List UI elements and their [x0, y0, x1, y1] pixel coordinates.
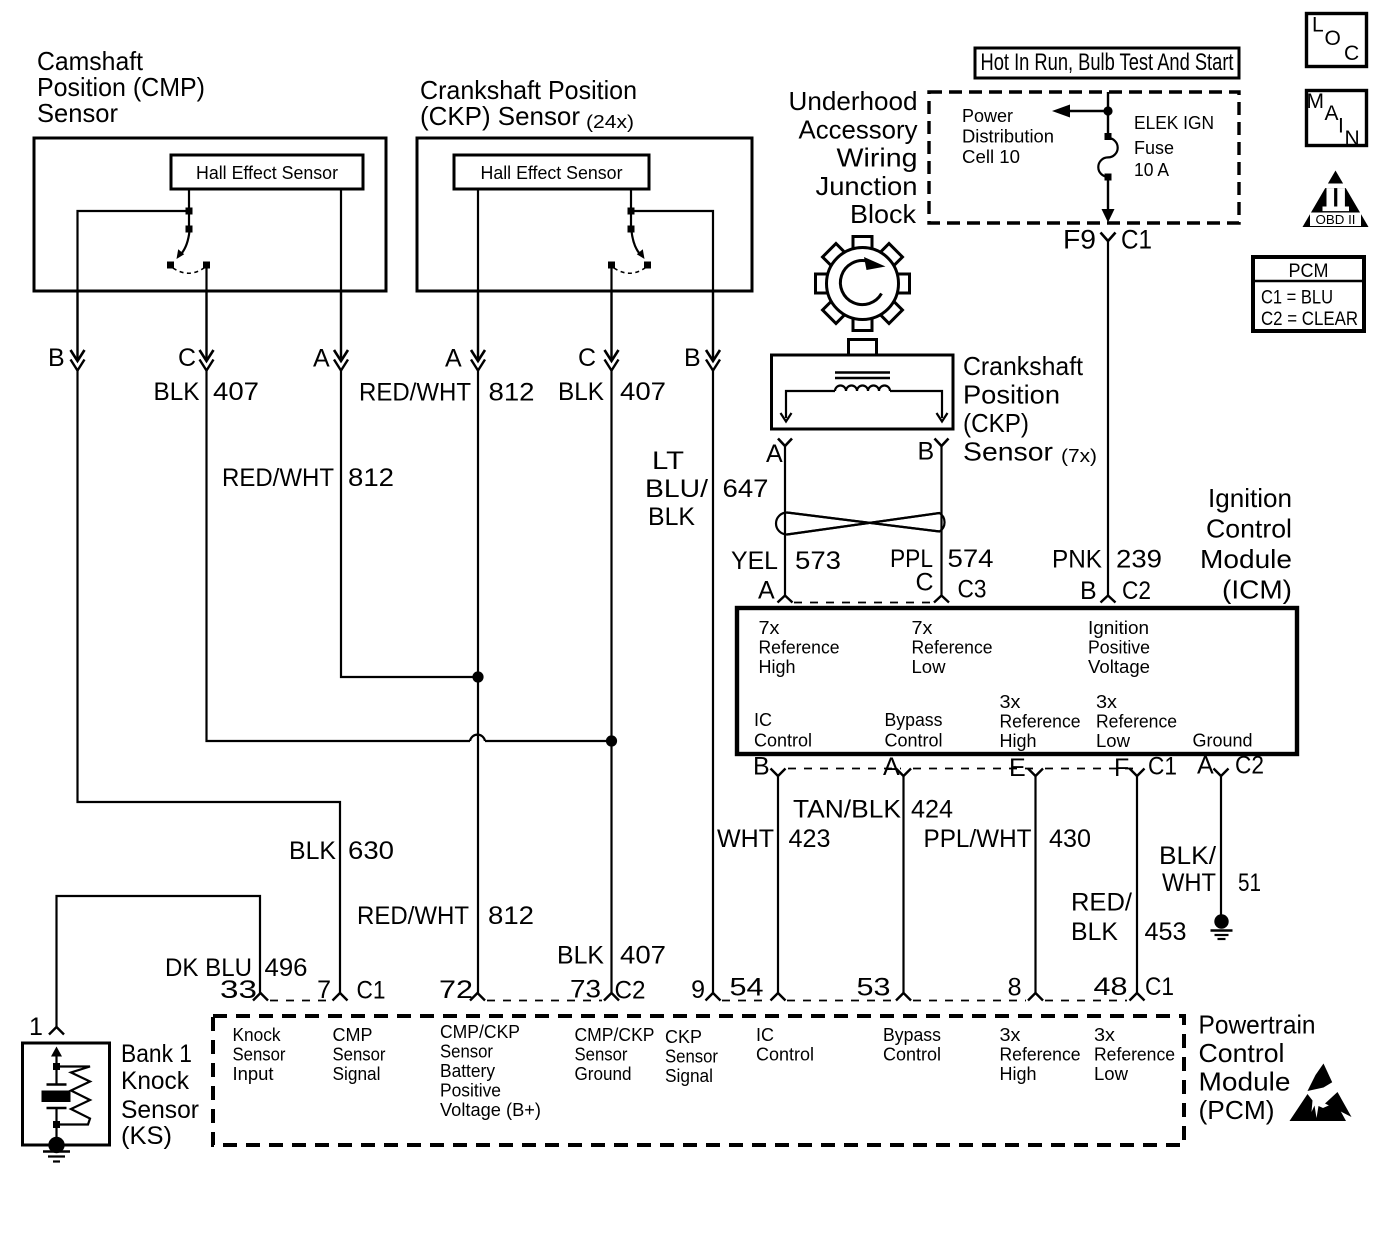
wire CKP hall to switch [630, 189, 632, 229]
CMP sensor title [37, 46, 205, 128]
svg-text:C1: C1 [1145, 973, 1174, 1001]
OBD II symbol [1303, 171, 1369, 228]
svg-text:I: I [1338, 115, 1344, 138]
wire CMP hall to pin A [340, 189, 342, 291]
svg-text:BLK: BLK [557, 942, 604, 970]
svg-text:C3: C3 [958, 576, 987, 604]
svg-text:High: High [1000, 1064, 1037, 1084]
svg-text:B: B [918, 438, 935, 466]
svg-text:PPL/WHT: PPL/WHT [924, 825, 1032, 853]
svg-text:Module: Module [1199, 1067, 1291, 1097]
svg-text:O: O [1325, 27, 1341, 50]
wire CKP B run [712, 371, 714, 994]
wire ICM F to PCM 48 [1136, 776, 1138, 993]
PCM label bypass control [883, 1025, 941, 1065]
svg-text:C: C [1344, 42, 1359, 65]
svg-text:48: 48 [1094, 973, 1128, 1001]
svg-text:Wiring: Wiring [837, 143, 918, 173]
PCM label CKP sensor signal [665, 1027, 718, 1086]
ICM box [737, 608, 1297, 754]
svg-text:BLU/: BLU/ [645, 475, 708, 503]
svg-text:Positive: Positive [1088, 638, 1150, 658]
svg-text:7x: 7x [759, 618, 780, 638]
svg-text:Sensor: Sensor [440, 1042, 493, 1062]
ICM top connector pin B C2 [1080, 577, 1151, 605]
PCM label 3x reference low [1094, 1025, 1175, 1084]
svg-text:C2: C2 [615, 977, 646, 1005]
svg-text:High: High [759, 657, 796, 677]
connector F9 C1 [1063, 225, 1152, 255]
svg-text:Ground: Ground [575, 1064, 632, 1084]
svg-text:DK BLU: DK BLU [165, 954, 252, 982]
svg-text:BLK: BLK [1071, 918, 1118, 946]
underhood junction block title [789, 86, 918, 229]
svg-text:C1 = BLU: C1 = BLU [1261, 288, 1333, 309]
svg-text:L: L [1312, 14, 1324, 37]
pin B of CKP [684, 291, 720, 372]
svg-text:C1: C1 [357, 977, 386, 1005]
label TAN/BLK 424 [793, 796, 953, 824]
svg-text:Module: Module [1200, 544, 1292, 574]
PCM label IC control [756, 1025, 814, 1065]
svg-text:LT: LT [652, 447, 684, 475]
svg-text:630: 630 [348, 837, 394, 865]
svg-text:A: A [1197, 752, 1214, 780]
PCM top connector pin 8 [1008, 974, 1043, 1002]
svg-text:C1: C1 [1148, 753, 1177, 781]
ICM top connector dashed line [794, 602, 932, 604]
PCM label 3x reference high [1000, 1025, 1081, 1084]
junction C [606, 735, 617, 746]
svg-text:3x: 3x [1000, 692, 1021, 712]
PCM dashed box [213, 1016, 1184, 1145]
svg-text:B: B [48, 344, 65, 372]
svg-text:C2 = CLEAR: C2 = CLEAR [1261, 309, 1358, 330]
svg-text:BLK: BLK [648, 503, 695, 531]
CKP switch [608, 208, 651, 274]
svg-text:RED/WHT: RED/WHT [357, 902, 469, 930]
svg-text:Reference: Reference [1000, 712, 1081, 732]
svg-text:8: 8 [1008, 974, 1022, 1002]
svg-text:Reference: Reference [1096, 712, 1177, 732]
ICM bottom connector pin E [1009, 754, 1043, 782]
svg-text:Ground: Ground [1193, 731, 1253, 751]
svg-text:C1: C1 [1121, 225, 1152, 255]
CMP sensor box [34, 138, 386, 291]
knock sensor ground [43, 1137, 70, 1162]
svg-text:(CKP) Sensor: (CKP) Sensor [420, 101, 580, 131]
label LT BLU/BLK 647 [645, 447, 769, 531]
svg-text:Reference: Reference [1094, 1045, 1175, 1065]
knock sensor piezo element [42, 1047, 71, 1146]
svg-text:647: 647 [723, 475, 769, 503]
wire CMP hall to switch [188, 189, 190, 229]
svg-text:9: 9 [691, 976, 705, 1004]
svg-text:C: C [178, 344, 196, 372]
label RED/BLK 453 [1071, 889, 1187, 947]
svg-text:Bypass: Bypass [885, 710, 943, 730]
svg-text:CKP: CKP [665, 1027, 702, 1047]
ICM bottom connector dashed line [788, 768, 1135, 770]
svg-text:Hall Effect Sensor: Hall Effect Sensor [196, 163, 338, 183]
fuse F9 [1098, 133, 1117, 181]
label RED/WHT 812 lower [357, 902, 534, 930]
PCM top connector pin 9 [691, 976, 720, 1004]
wire into fuse [1107, 92, 1109, 136]
svg-text:53: 53 [857, 974, 891, 1002]
svg-text:A: A [766, 440, 783, 468]
label PPL/WHT 430 [924, 825, 1092, 853]
svg-text:Signal: Signal [333, 1064, 381, 1084]
feed arrow to power distribution [1052, 105, 1113, 118]
svg-text:(CKP): (CKP) [963, 408, 1029, 438]
svg-text:453: 453 [1145, 918, 1187, 946]
knock sensor title [121, 1040, 199, 1150]
svg-text:Control: Control [1206, 514, 1292, 544]
svg-text:Low: Low [912, 657, 947, 677]
svg-text:RED/WHT: RED/WHT [359, 379, 471, 407]
wire CKP C run [610, 371, 612, 994]
svg-text:3x: 3x [1094, 1025, 1115, 1045]
hot in run label box [975, 48, 1239, 78]
svg-text:Reference: Reference [1000, 1045, 1081, 1065]
PCM top connector pin 48 C1 [1094, 973, 1175, 1001]
ICM top connector pin A [758, 577, 793, 605]
svg-text:BLK/: BLK/ [1159, 842, 1216, 870]
svg-text:Control: Control [756, 1045, 814, 1065]
svg-text:Control: Control [754, 731, 812, 751]
svg-text:Ignition: Ignition [1088, 618, 1149, 638]
CMP switch [167, 208, 210, 274]
svg-text:CMP/CKP: CMP/CKP [575, 1025, 655, 1045]
wire CMP C run to junction with hop [207, 371, 609, 742]
svg-text:Sensor: Sensor [233, 1045, 286, 1065]
PCM top connector pin 7 C1 [317, 976, 385, 1005]
label RED/WHT 812 on CMP A [222, 464, 394, 492]
ICM label 3x reference high [1000, 692, 1081, 751]
svg-text:54: 54 [730, 974, 764, 1002]
svg-text:812: 812 [348, 464, 394, 492]
svg-text:TAN/BLK: TAN/BLK [793, 796, 901, 824]
svg-text:PCM: PCM [1289, 261, 1329, 282]
wire ICM A C2 to ground [1220, 776, 1222, 915]
MAIN symbol [1307, 90, 1367, 150]
pin A of CKP 7x [766, 439, 792, 469]
wire CKP switch to pin C [610, 268, 612, 291]
svg-text:B: B [684, 344, 701, 372]
label PPL 574 [890, 545, 994, 573]
svg-text:Hot In Run, Bulb Test And Star: Hot In Run, Bulb Test And Start [981, 49, 1234, 76]
svg-text:Powertrain: Powertrain [1199, 1010, 1316, 1040]
svg-text:424: 424 [911, 796, 953, 824]
wire CMP switch common to B [78, 211, 190, 291]
wire CMP B run [78, 371, 341, 994]
svg-text:Bypass: Bypass [883, 1025, 941, 1045]
ICM label ignition positive voltage [1088, 618, 1150, 677]
svg-text:Block: Block [850, 199, 917, 229]
wire CKP7x B to ICM [940, 446, 942, 596]
svg-text:RED/: RED/ [1071, 889, 1132, 917]
CKP sensor box [417, 138, 752, 291]
label BLK 407 lower [557, 942, 666, 970]
svg-text:ELEK IGN: ELEK IGN [1134, 113, 1214, 133]
CKP 7x pickup coil [781, 373, 948, 422]
svg-text:N: N [1345, 127, 1360, 150]
svg-text:Distribution: Distribution [962, 127, 1054, 147]
ground symbol G103 [1211, 914, 1233, 939]
svg-text:BLK: BLK [558, 378, 604, 406]
svg-text:(PCM): (PCM) [1199, 1095, 1275, 1125]
svg-text:Reference: Reference [759, 638, 840, 658]
label BLK/WHT 51 [1159, 842, 1261, 897]
svg-text:Sensor: Sensor [121, 1096, 199, 1124]
pin C of CMP [178, 291, 214, 372]
svg-text:Position: Position [963, 380, 1060, 410]
CKP 7x sensor box [772, 340, 954, 430]
svg-text:Knock: Knock [233, 1025, 282, 1045]
PCM top connector pin 54 [730, 974, 786, 1002]
svg-text:M: M [1307, 90, 1325, 113]
svg-text:1: 1 [29, 1013, 43, 1041]
PCM title [1199, 1010, 1316, 1126]
reluctor wheel symbol [816, 237, 910, 331]
svg-text:Control: Control [1199, 1038, 1285, 1068]
svg-text:BLK: BLK [154, 378, 200, 406]
wire ICM E to PCM 8 [1034, 776, 1036, 993]
svg-text:Battery: Battery [440, 1061, 495, 1081]
PCM top connector pin 53 [857, 974, 912, 1002]
label WHT 423 [717, 825, 831, 853]
label YEL 573 [731, 547, 841, 575]
ICM bottom connector pin F C1 [1114, 753, 1177, 783]
pin C of CKP [578, 291, 619, 372]
svg-text:Junction: Junction [816, 171, 918, 201]
CKP 7x sensor title [963, 351, 1097, 467]
svg-text:423: 423 [789, 825, 831, 853]
svg-text:Hall Effect Sensor: Hall Effect Sensor [481, 163, 623, 183]
PCM top connector pin 73 C2 [570, 976, 646, 1005]
pin A of CMP [313, 291, 348, 373]
svg-text:IC: IC [754, 710, 772, 730]
svg-text:73: 73 [570, 976, 601, 1004]
svg-text:3x: 3x [1000, 1025, 1021, 1045]
ICM label bypass control [885, 710, 943, 751]
svg-text:WHT: WHT [717, 825, 774, 853]
svg-text:(ICM): (ICM) [1222, 575, 1292, 605]
CMP hall effect sensor box [171, 155, 363, 189]
wire CKP A run [477, 371, 479, 994]
svg-text:Signal: Signal [665, 1066, 713, 1086]
ICM label 7x reference high [759, 618, 840, 677]
svg-text:Input: Input [233, 1064, 274, 1084]
svg-text:Accessory: Accessory [799, 115, 918, 145]
svg-text:IC: IC [756, 1025, 774, 1045]
ICM label IC control [754, 710, 812, 751]
svg-text:Low: Low [1094, 1064, 1129, 1084]
wire CKP7x A to ICM [784, 446, 786, 596]
twisted pair symbol [776, 513, 945, 535]
svg-text:51: 51 [1238, 869, 1261, 897]
svg-text:B: B [1080, 577, 1097, 605]
svg-text:Sensor: Sensor [37, 98, 118, 128]
svg-text:High: High [1000, 731, 1037, 751]
PCM connector legend [1253, 257, 1364, 331]
wire CMP A run to junction [341, 371, 473, 678]
svg-text:B: B [753, 753, 770, 781]
svg-text:3x: 3x [1096, 692, 1117, 712]
CKP hall effect sensor box [454, 155, 649, 189]
svg-text:Sensor: Sensor [963, 437, 1053, 467]
svg-text:496: 496 [265, 954, 308, 982]
svg-text:OBD II: OBD II [1316, 212, 1356, 227]
wire ICM B to PCM 54 [777, 776, 779, 993]
svg-text:(7x): (7x) [1061, 446, 1097, 466]
svg-text:Sensor: Sensor [575, 1045, 628, 1065]
svg-text:Low: Low [1096, 731, 1131, 751]
PCM top connector pin 33 [220, 976, 268, 1004]
svg-text:7x: 7x [912, 618, 933, 638]
ICM title [1200, 483, 1292, 605]
svg-text:Voltage: Voltage [1088, 657, 1150, 677]
svg-text:CMP/CKP: CMP/CKP [440, 1022, 520, 1042]
ESD sensitive symbol [1290, 1064, 1352, 1122]
svg-text:RED/WHT: RED/WHT [222, 464, 334, 492]
svg-text:YEL: YEL [731, 547, 778, 575]
svg-text:72: 72 [439, 976, 473, 1004]
LOC symbol [1307, 14, 1367, 67]
junction block dashed box [929, 92, 1239, 223]
svg-text:407: 407 [620, 942, 666, 970]
svg-text:Underhood: Underhood [789, 86, 918, 116]
svg-text:812: 812 [488, 902, 534, 930]
svg-text:CMP: CMP [333, 1025, 373, 1045]
svg-text:430: 430 [1049, 825, 1091, 853]
svg-text:A: A [1325, 102, 1339, 125]
svg-text:A: A [758, 577, 775, 605]
svg-text:407: 407 [213, 378, 259, 406]
CKP sensor title [420, 75, 637, 132]
svg-text:Power: Power [962, 106, 1013, 126]
PCM label knock sensor input [233, 1025, 286, 1084]
svg-text:C2: C2 [1235, 752, 1264, 780]
wire CKP switch common to B [631, 211, 713, 291]
svg-text:A: A [313, 345, 330, 373]
svg-text:BLK: BLK [289, 837, 336, 865]
ELEK IGN fuse label [1134, 113, 1214, 180]
knock sensor resistor [60, 1067, 90, 1125]
PCM label CMP CKP battery positive voltage [440, 1022, 541, 1120]
PCM label CMP sensor signal [333, 1025, 386, 1084]
svg-text:812: 812 [489, 379, 535, 407]
svg-text:Ignition: Ignition [1208, 483, 1292, 513]
svg-text:Control: Control [885, 731, 943, 751]
svg-text:Reference: Reference [912, 638, 993, 658]
ICM label 3x reference low [1096, 692, 1177, 751]
svg-text:(KS): (KS) [121, 1122, 172, 1150]
ICM label 7x reference low [912, 618, 993, 677]
svg-text:A: A [883, 753, 900, 781]
svg-text:Sensor: Sensor [333, 1045, 386, 1065]
wire ICM A to PCM 53 [902, 776, 904, 993]
svg-text:Sensor: Sensor [665, 1047, 718, 1067]
svg-text:WHT: WHT [1162, 869, 1216, 897]
svg-text:Crankshaft: Crankshaft [963, 351, 1084, 381]
label DK BLU 496 [165, 954, 308, 982]
PCM top connector pin 72 [439, 976, 485, 1004]
wire fuse to junction block edge [1102, 180, 1115, 223]
svg-text:574: 574 [948, 545, 994, 573]
svg-text:PNK: PNK [1052, 546, 1102, 574]
svg-text:10 A: 10 A [1134, 160, 1169, 180]
wire CKP hall to pin A [477, 189, 479, 291]
junction A [472, 671, 483, 682]
svg-text:C: C [578, 344, 596, 372]
svg-text:Voltage (B+): Voltage (B+) [440, 1100, 541, 1120]
svg-text:Cell 10: Cell 10 [962, 147, 1020, 167]
svg-text:C2: C2 [1122, 577, 1151, 605]
wire CMP switch to pin C [205, 268, 207, 291]
label RED/WHT 812 row2 [359, 379, 535, 407]
svg-text:Fuse: Fuse [1134, 138, 1174, 158]
ICM bottom connector pin B [753, 753, 786, 781]
svg-text:F9: F9 [1063, 225, 1096, 255]
ICM bottom connector pin A C2 [1197, 752, 1264, 780]
pin B of CMP [48, 291, 85, 372]
label BLK 407 row2 left [154, 378, 260, 406]
svg-text:Control: Control [883, 1045, 941, 1065]
pin A of CKP [445, 291, 485, 373]
svg-text:(24x): (24x) [586, 112, 634, 132]
svg-text:573: 573 [795, 547, 841, 575]
label BLK 407 row2 right [558, 378, 666, 406]
knock sensor box [23, 1043, 110, 1145]
wire fuse C1 to ICM B [1107, 241, 1109, 596]
PCM top connector dashed line [270, 1000, 1127, 1002]
ICM bottom connector pin A [883, 753, 911, 781]
svg-text:239: 239 [1116, 546, 1162, 574]
pin B of CKP 7x [918, 438, 949, 466]
knock sensor pin 1 [29, 1013, 64, 1041]
PCM label CMP CKP sensor ground [575, 1025, 655, 1084]
power distribution label [962, 106, 1054, 167]
label BLK 630 [289, 837, 394, 865]
ICM top connector pin C C3 [916, 569, 987, 604]
svg-text:407: 407 [620, 378, 666, 406]
svg-text:C: C [916, 569, 934, 597]
svg-text:A: A [445, 345, 462, 373]
wire knock sensor to PCM 33 [57, 896, 261, 1027]
svg-text:Knock: Knock [121, 1067, 189, 1095]
svg-text:Positive: Positive [440, 1081, 501, 1101]
label PNK 239 [1052, 546, 1162, 574]
svg-text:Bank 1: Bank 1 [121, 1040, 192, 1068]
